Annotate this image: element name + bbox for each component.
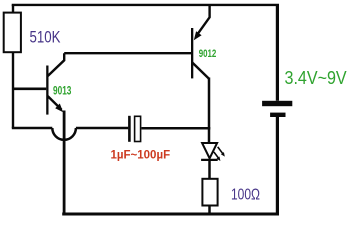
wire base of Q1 [13, 88, 46, 91]
transistor Q2 collector diagonal [192, 62, 209, 78]
svg-text:100Ω: 100Ω [231, 185, 260, 203]
wire hop to capacitor [76, 127, 128, 130]
svg-text:1µF~100µF: 1µF~100µF [111, 149, 171, 161]
LED D1 light arrow 2 [214, 152, 221, 161]
wire Q2 collector down to LED [208, 78, 211, 144]
battery BT1 negative plate [270, 113, 285, 117]
label 3.4V~9V [285, 67, 348, 88]
resistor R1 510K [4, 13, 21, 53]
wire left stub from top rail to R1 [12, 5, 14, 13]
transistor Q1 emitter diagonal with arrow [48, 96, 64, 112]
svg-text:510K: 510K [30, 28, 61, 47]
wire Q1 emitter vertical down [63, 111, 66, 215]
wire R2 stub to bottom rail [208, 206, 211, 215]
LED D1 cathode bar [201, 159, 218, 161]
transistor Q1 collector diagonal [48, 53, 65, 76]
wire bottom rail [62, 213, 279, 216]
label 100 ohm [231, 185, 260, 203]
transistor Q2 emitter with arrow to bar [194, 5, 210, 40]
capacitor C1 left plate [128, 116, 131, 142]
wire horizontal left segment to hop [12, 127, 53, 130]
svg-text:3.4V~9V: 3.4V~9V [285, 67, 348, 88]
wire Q1 collector to Q2 base [64, 52, 191, 54]
transistor Q2 9012 base bar [191, 28, 193, 78]
wire LED to R2 [208, 160, 211, 178]
LED D1 light arrow 1 [218, 147, 225, 157]
wire right vertical from top rail to battery [276, 5, 279, 101]
resistor R2 100 ohm [202, 179, 217, 206]
wire battery to bottom rail [276, 117, 279, 214]
svg-text:9012: 9012 [199, 48, 217, 61]
label 9013 [53, 86, 72, 99]
transistor Q1 9013 base bar [46, 66, 48, 115]
label 1uF~100uF [111, 149, 171, 161]
wire left vertical below R1 [12, 53, 14, 129]
label 9012 [199, 48, 217, 61]
battery BT1 positive plate [262, 101, 292, 106]
wire capacitor to LED node [141, 127, 210, 130]
svg-text:9013: 9013 [53, 86, 72, 99]
label 510K [30, 28, 61, 47]
wire hop arc over emitter wire [52, 128, 76, 140]
capacitor C1 right plate [135, 116, 141, 141]
wire top rail [12, 4, 279, 6]
LED D1 triangle [202, 143, 217, 158]
